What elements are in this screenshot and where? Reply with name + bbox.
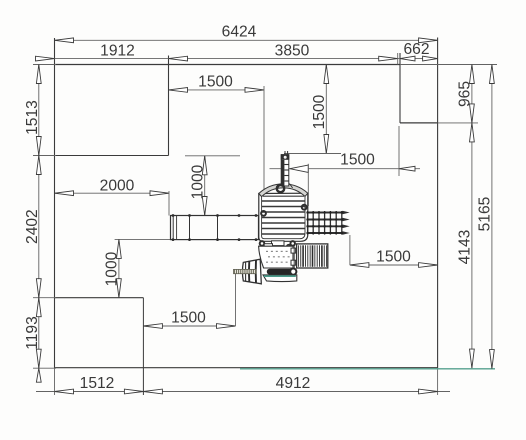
svg-text:1000: 1000 (189, 164, 206, 199)
svg-text:1513: 1513 (24, 100, 41, 135)
svg-text:1512: 1512 (80, 375, 115, 392)
dimension 1500 (pole to right zone edge) (270, 168, 421, 170)
tube bridge arm (171, 216, 259, 240)
dimension 662 (400, 56, 415, 61)
inner rectangle bottom-left (1512 x 1193 zone) (54, 297, 143, 299)
dimension 1500 (top boundary to pole) (325, 65, 327, 154)
right dim extension ticks (400, 64, 497, 66)
deck planks (262, 200, 305, 202)
svg-text:5165: 5165 (477, 196, 494, 231)
dimension 5165 (491, 65, 493, 369)
net climber rungs (307, 211, 309, 235)
svg-text:1000: 1000 (104, 251, 121, 286)
lower platform (259, 246, 293, 268)
dimension 1500 (zone corner to rod) (143, 325, 235, 327)
dimension 1912 (36, 58, 438, 60)
deck platform body (259, 193, 308, 241)
deck corner posts (261, 211, 266, 216)
inner rectangle top-left (1912 x 1513 zone) (54, 155, 169, 157)
svg-text:3850: 3850 (275, 43, 310, 60)
teal ground line (240, 368, 495, 370)
svg-text:1500: 1500 (376, 249, 411, 266)
dimension 1193 (36, 298, 41, 317)
pole base ring (277, 185, 284, 192)
dimension 4912 (143, 389, 162, 394)
boundary outline: top edge (54, 64, 400, 66)
ribbed rod handle (234, 269, 257, 273)
deck bottom steps (272, 241, 285, 246)
teal step band (263, 275, 297, 282)
rail end ring (290, 269, 296, 275)
dimension 1000 (tube bottom to zone corner) (115, 238, 171, 240)
svg-text:2000: 2000 (100, 178, 135, 195)
boundary outline: bottom edge (dark with teal extension) (55, 367, 438, 369)
boundary outline: step at 662 strip (399, 53, 401, 123)
dimension 2402 (36, 156, 41, 175)
dimension 1512 (36, 391, 450, 393)
boundary outline: right edge (extends up as extension line) (437, 38, 439, 369)
svg-text:1193: 1193 (24, 316, 41, 350)
svg-text:1500: 1500 (311, 94, 328, 129)
barrel toy (242, 259, 261, 284)
svg-text:1500: 1500 (198, 74, 233, 91)
deck dome edge (259, 184, 308, 197)
svg-text:2402: 2402 (24, 209, 41, 244)
slide bed (297, 244, 328, 268)
left dim extension ticks (33, 64, 56, 66)
svg-text:4143: 4143 (457, 230, 474, 265)
pole ladder (281, 155, 289, 186)
dimension 1513 (38, 65, 40, 369)
dark rail band (267, 269, 294, 275)
platform side tabs (291, 248, 296, 253)
boundary outline: left edge (extends to dim rows) (54, 38, 56, 368)
deck inner border (262, 196, 305, 238)
dimension 1000 (zone line to tube top) (185, 155, 240, 157)
dimension 2000 (left boundary to tube end) (55, 192, 170, 194)
tube bolts (172, 214, 175, 217)
dimension 965 (471, 65, 473, 369)
svg-text:662: 662 (403, 41, 429, 58)
svg-text:6424: 6424 (222, 24, 257, 41)
dimension 6424 (55, 39, 438, 41)
dimension 4143 (470, 123, 475, 142)
dimension 1500 (deck to left zone) (169, 89, 265, 91)
dimension 1500 (net arm to right boundary) (350, 264, 438, 266)
svg-text:1912: 1912 (100, 43, 135, 60)
net climber arm rails (307, 212, 343, 214)
net knots (306, 211, 309, 214)
svg-text:1500: 1500 (171, 310, 206, 327)
svg-text:1500: 1500 (340, 152, 375, 169)
platform perforation dots (266, 251, 268, 252)
svg-text:4912: 4912 (276, 375, 311, 392)
pole base braces (277, 184, 281, 190)
svg-text:965: 965 (457, 81, 474, 107)
slide stripes (297, 245, 299, 266)
dimension 3850 (169, 56, 188, 61)
